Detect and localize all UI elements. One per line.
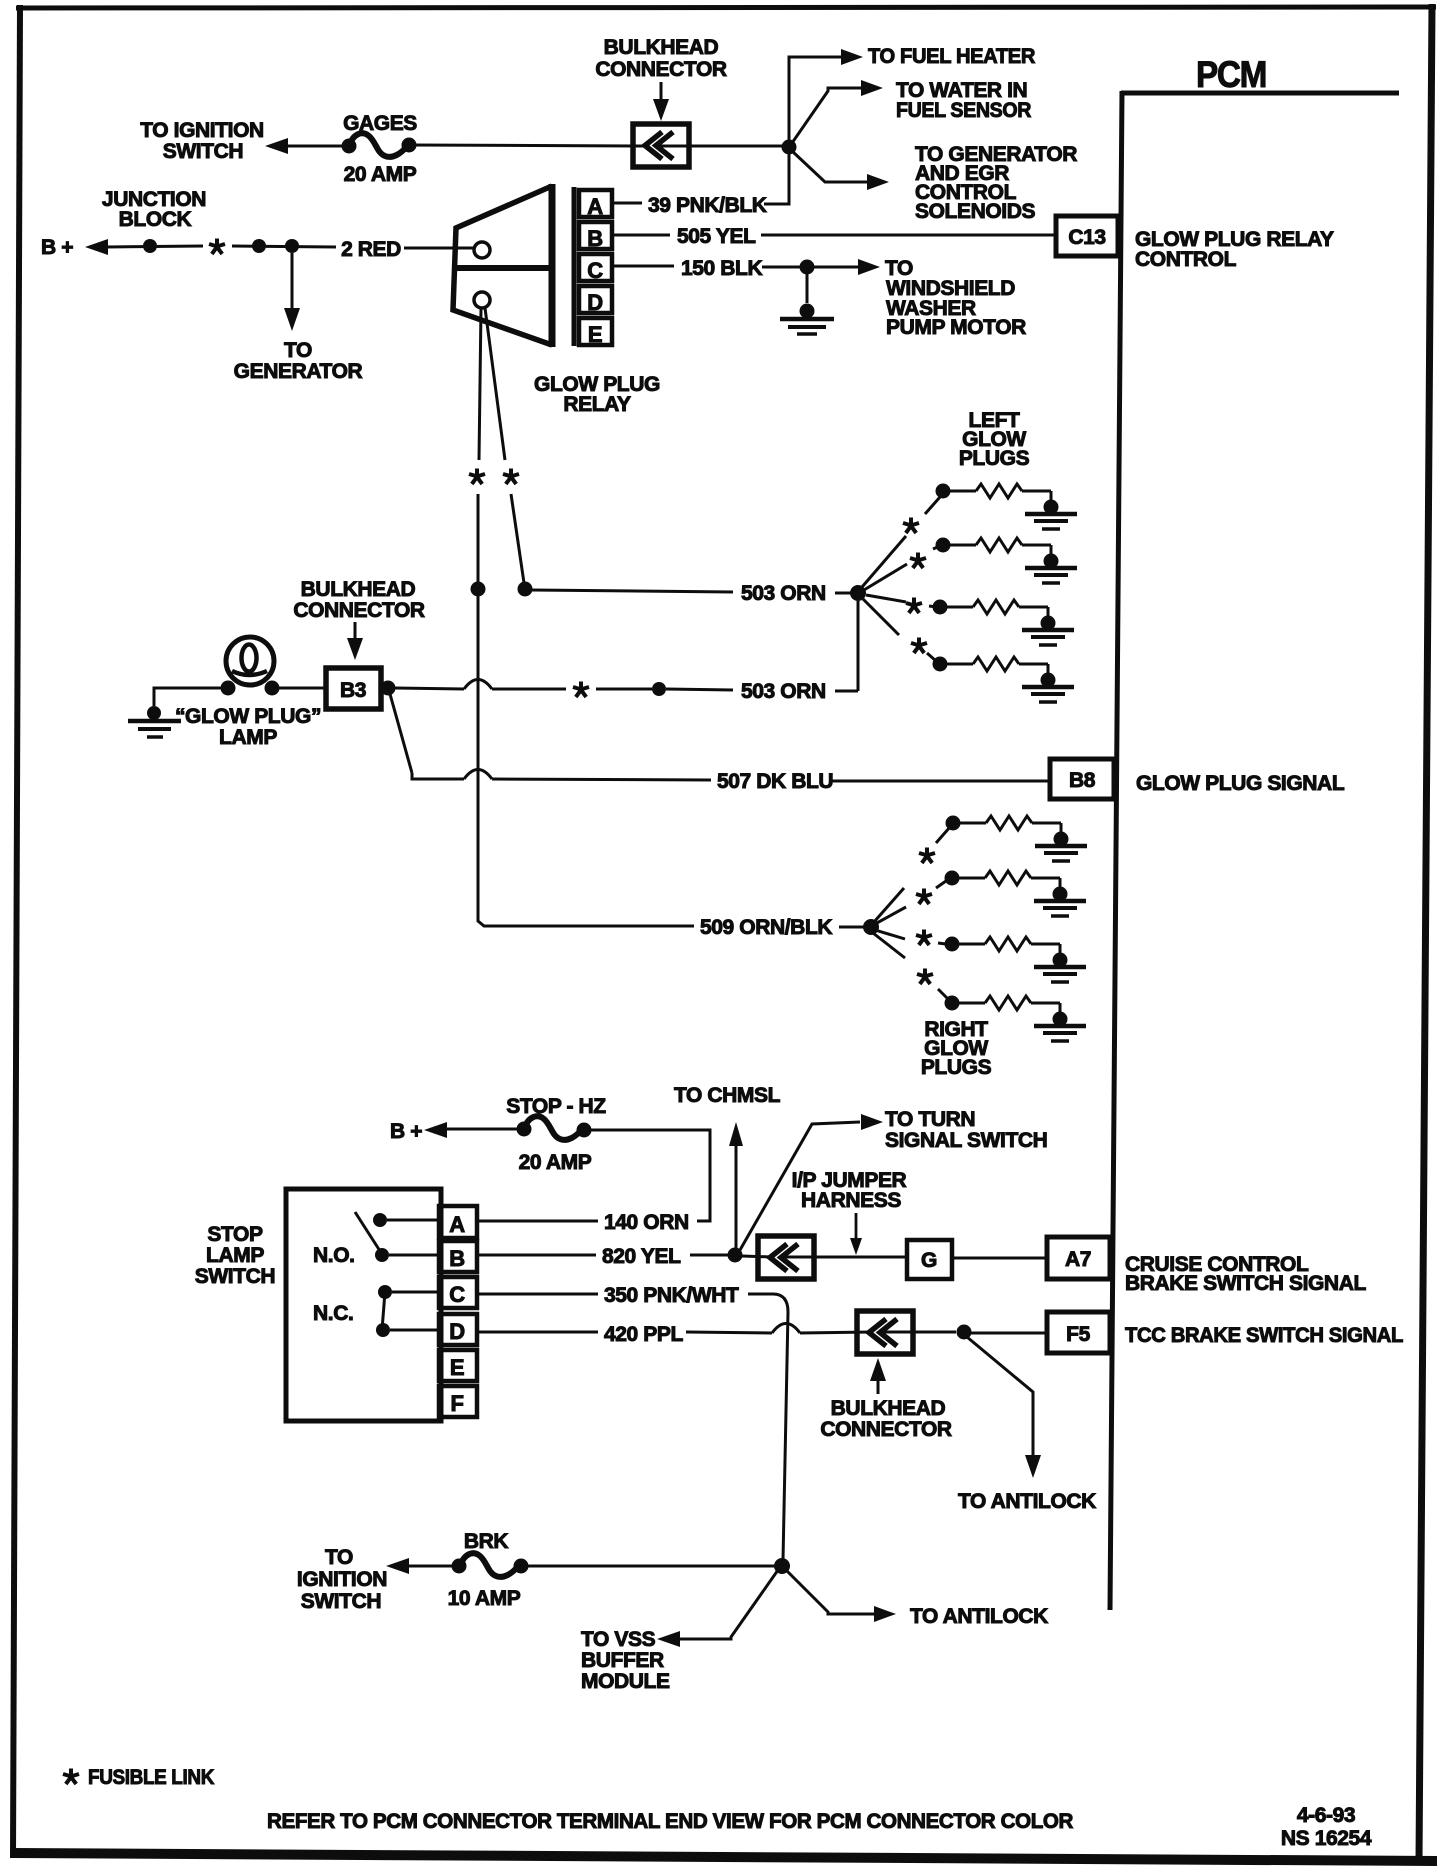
svg-text:C13: C13 bbox=[1068, 226, 1105, 249]
wire 39 PNK/BLK bbox=[613, 194, 767, 217]
svg-text:PLUGS: PLUGS bbox=[921, 1056, 992, 1079]
wire to windshield washer pump motor bbox=[814, 257, 1026, 339]
wire to BRK fuse bbox=[407, 1565, 459, 1568]
wire fan to plug R4 bbox=[873, 933, 905, 958]
wire 507 DK BLU bbox=[390, 694, 1050, 793]
lamp: glow plug lamp bbox=[221, 637, 280, 696]
wire to water in fuel sensor bbox=[792, 79, 1031, 143]
svg-text:A: A bbox=[587, 194, 603, 219]
svg-text:CONNECTOR: CONNECTOR bbox=[595, 58, 727, 81]
bulkhead connector (top) bbox=[633, 124, 689, 167]
node: brake feed junction bbox=[774, 1558, 790, 1574]
wire fan to plug L3 bbox=[866, 595, 906, 602]
svg-text:507 DK BLU: 507 DK BLU bbox=[717, 770, 833, 793]
switch: stop lamp switch box bbox=[286, 1189, 441, 1421]
relay terminal B bbox=[579, 222, 612, 251]
wire to F5 bbox=[971, 1332, 1047, 1335]
svg-text:LAMP: LAMP bbox=[219, 726, 277, 749]
svg-text:A: A bbox=[449, 1212, 465, 1237]
glow plug L3 with ground bbox=[933, 600, 1075, 646]
svg-text:TO: TO bbox=[284, 339, 312, 362]
svg-text:20 AMP: 20 AMP bbox=[344, 163, 417, 186]
wire to generator and EGR control solenoids bbox=[792, 143, 1077, 223]
svg-text:TO CHMSL: TO CHMSL bbox=[674, 1084, 781, 1107]
wire 820 YEL bbox=[477, 1245, 728, 1268]
switch terminal F bbox=[439, 1386, 477, 1417]
wire to bulkhead bbox=[742, 1256, 772, 1257]
label: CRUISE CONTROL BRAKE SWITCH SIGNAL bbox=[1125, 1253, 1366, 1295]
label: TO IGNITION SWITCH (bottom) bbox=[297, 1546, 387, 1613]
svg-text:TO VSS: TO VSS bbox=[581, 1628, 656, 1651]
relay: glow plug relay body bbox=[453, 184, 574, 347]
switch terminal A bbox=[439, 1206, 477, 1238]
switch terminal B bbox=[439, 1241, 477, 1272]
svg-text:REFER TO PCM CONNECTOR TERMINA: REFER TO PCM CONNECTOR TERMINAL END VIEW… bbox=[267, 1810, 1073, 1833]
label: RIGHT GLOW PLUGS bbox=[921, 1018, 992, 1079]
switch terminal D bbox=[439, 1314, 477, 1345]
note: fusible link legend bbox=[63, 1766, 214, 1789]
wire bulkhead to G bbox=[784, 1256, 907, 1259]
node: 150 BLK tap bbox=[800, 260, 815, 275]
svg-text:39 PNK/BLK: 39 PNK/BLK bbox=[648, 194, 767, 217]
node: generator tap bbox=[285, 239, 299, 253]
label: LEFT GLOW PLUGS bbox=[959, 409, 1030, 470]
switch terminal C bbox=[439, 1277, 477, 1308]
svg-text:FUSIBLE LINK: FUSIBLE LINK bbox=[88, 1766, 214, 1789]
wire ignition feed bbox=[286, 145, 348, 148]
svg-text:STOP - HZ: STOP - HZ bbox=[506, 1095, 606, 1118]
connector B3 bbox=[326, 668, 381, 709]
pin F5 bbox=[1047, 1312, 1110, 1353]
svg-text:150 BLK: 150 BLK bbox=[681, 257, 762, 280]
fuse GAGES 20 AMP bbox=[342, 112, 418, 186]
svg-text:GENERATOR: GENERATOR bbox=[234, 360, 363, 383]
svg-text:503 ORN: 503 ORN bbox=[741, 680, 826, 703]
relay terminal D bbox=[579, 286, 612, 315]
arrow to ignition switch (bottom) bbox=[386, 1558, 409, 1574]
svg-text:BULKHEAD: BULKHEAD bbox=[301, 578, 416, 601]
relay terminal E bbox=[579, 318, 612, 347]
node: junction block bbox=[143, 239, 157, 253]
node: 503 ORN source left bbox=[471, 582, 486, 597]
svg-text:B8: B8 bbox=[1069, 769, 1096, 792]
wire to VSS buffer module bbox=[581, 1570, 778, 1693]
wire fuse to 140 ORN bbox=[584, 1130, 710, 1221]
label: GLOW PLUG RELAY bbox=[534, 373, 660, 416]
node: TCC antilock tap bbox=[957, 1325, 972, 1340]
label: TO IGNITION SWITCH bbox=[140, 119, 264, 163]
wire fan to plug R1 bbox=[874, 888, 904, 922]
arrow B+ stop feed bbox=[424, 1122, 447, 1138]
wire to antilock (from TCC tap) bbox=[958, 1337, 1096, 1513]
wire 509 ORN/BLK bbox=[478, 596, 864, 939]
wire to fuse bbox=[445, 1128, 524, 1131]
wire 350 PNK/WHT bbox=[477, 1284, 788, 1560]
svg-text:20 AMP: 20 AMP bbox=[519, 1151, 592, 1174]
svg-text:B3: B3 bbox=[340, 679, 366, 702]
label: BULKHEAD CONNECTOR (top) bbox=[595, 36, 727, 121]
pin A7 bbox=[1047, 1237, 1110, 1279]
glow plug L4 with ground bbox=[933, 657, 1075, 703]
node: right glow plug fan bbox=[863, 919, 879, 935]
node: ignition feed junction bbox=[782, 140, 797, 155]
svg-text:CONNECTOR: CONNECTOR bbox=[820, 1418, 952, 1441]
wire 420 PPL bbox=[477, 1323, 872, 1346]
label: "GLOW PLUG" LAMP bbox=[175, 705, 321, 749]
svg-text:140 ORN: 140 ORN bbox=[604, 1211, 689, 1234]
svg-text:SWITCH: SWITCH bbox=[301, 1590, 381, 1613]
wire fuse to bulkhead connector bbox=[410, 145, 648, 146]
svg-text:SWITCH: SWITCH bbox=[195, 1265, 275, 1288]
bulkhead connector (820 YEL) bbox=[758, 1236, 814, 1279]
svg-text:“GLOW PLUG”: “GLOW PLUG” bbox=[175, 705, 321, 728]
svg-text:CONTROL: CONTROL bbox=[1135, 248, 1237, 271]
wire fan to plug L4 bbox=[863, 599, 899, 635]
wire to fuel heater bbox=[789, 45, 1035, 141]
note: date code bbox=[1281, 1804, 1372, 1850]
relay terminal A bbox=[579, 190, 612, 219]
svg-text:A7: A7 bbox=[1065, 1248, 1091, 1271]
svg-text:SOLENOIDS: SOLENOIDS bbox=[915, 200, 1035, 223]
svg-text:BRAKE SWITCH SIGNAL: BRAKE SWITCH SIGNAL bbox=[1125, 1272, 1366, 1295]
wire B+ feed bbox=[106, 246, 203, 247]
svg-text:BLOCK: BLOCK bbox=[119, 208, 192, 231]
pin B8 bbox=[1050, 759, 1114, 799]
svg-text:LAMP: LAMP bbox=[206, 1244, 264, 1267]
svg-text:E: E bbox=[450, 1355, 464, 1380]
relay terminal C bbox=[579, 254, 612, 283]
svg-text:CONNECTOR: CONNECTOR bbox=[293, 599, 425, 622]
connector G bbox=[907, 1240, 952, 1279]
bulkhead connector (420 PPL) bbox=[857, 1311, 913, 1354]
svg-text:STOP: STOP bbox=[207, 1223, 263, 1246]
glow plug R2 with ground bbox=[945, 871, 1087, 917]
svg-text:IGNITION: IGNITION bbox=[297, 1568, 387, 1591]
pin C13 bbox=[1056, 216, 1118, 256]
glow plug R4 with ground bbox=[945, 996, 1087, 1042]
arrow B+ bbox=[85, 239, 108, 255]
switch N.C. contact bbox=[313, 1285, 439, 1337]
label: BULKHEAD CONNECTOR (bottom) bbox=[820, 1358, 952, 1441]
svg-text:TO: TO bbox=[325, 1546, 353, 1569]
wire fuse to brake junction bbox=[521, 1565, 776, 1568]
glow plug L2 with ground bbox=[936, 538, 1078, 584]
label: STOP LAMP SWITCH bbox=[195, 1223, 275, 1288]
svg-text:10 AMP: 10 AMP bbox=[448, 1587, 521, 1610]
wire 503 ORN (upper) bbox=[532, 582, 852, 605]
svg-text:TO FUEL HEATER: TO FUEL HEATER bbox=[868, 45, 1035, 68]
svg-text:2 RED: 2 RED bbox=[341, 238, 401, 261]
svg-text:F: F bbox=[450, 1391, 463, 1416]
svg-text:BUFFER: BUFFER bbox=[581, 1649, 664, 1672]
ground (150 BLK) bbox=[780, 274, 834, 334]
wire to CHMSL bbox=[729, 1122, 743, 1250]
svg-text:503 ORN: 503 ORN bbox=[741, 582, 826, 605]
fuse STOP-HZ 20 AMP bbox=[506, 1095, 606, 1174]
fusible link asterisks bbox=[469, 469, 485, 485]
node: B3 output bbox=[381, 681, 396, 696]
svg-text:PLUGS: PLUGS bbox=[959, 447, 1030, 470]
svg-text:RELAY: RELAY bbox=[563, 393, 631, 416]
svg-text:BRK: BRK bbox=[464, 1530, 509, 1553]
svg-text:505 YEL: 505 YEL bbox=[677, 225, 756, 248]
wire to turn signal switch bbox=[740, 1108, 1047, 1250]
svg-text:TO IGNITION: TO IGNITION bbox=[140, 119, 264, 142]
node: left glow plug fan bbox=[850, 585, 866, 601]
label: I/P JUMPER HARNESS bbox=[792, 1169, 907, 1255]
fusible link asterisk (503 ORN) bbox=[573, 682, 589, 698]
svg-text:BULKHEAD: BULKHEAD bbox=[604, 36, 719, 59]
svg-text:HARNESS: HARNESS bbox=[801, 1189, 901, 1212]
PCM module boundary bbox=[1110, 54, 1399, 1610]
fusible link asterisk bbox=[209, 239, 225, 255]
wire 503 ORN (lower) bbox=[395, 680, 858, 704]
label: JUNCTION BLOCK bbox=[102, 188, 206, 231]
svg-text:MODULE: MODULE bbox=[581, 1670, 670, 1693]
wire fan to plug R2 bbox=[875, 907, 906, 924]
svg-text:B +: B + bbox=[390, 1120, 422, 1143]
wire 140 ORN bbox=[477, 1211, 689, 1234]
wire 505 YEL bbox=[613, 225, 1056, 248]
wire G to A7 bbox=[952, 1257, 1047, 1260]
svg-text:FUEL SENSOR: FUEL SENSOR bbox=[896, 99, 1031, 122]
ground (lamp) bbox=[128, 706, 181, 737]
svg-text:C: C bbox=[587, 258, 603, 283]
wire to generator bbox=[234, 253, 363, 383]
wire fan to plug R3 bbox=[875, 930, 905, 939]
svg-text:4-6-93: 4-6-93 bbox=[1297, 1804, 1355, 1827]
wire fan to plug L1 bbox=[862, 536, 906, 587]
svg-text:N.O.: N.O. bbox=[313, 1244, 355, 1267]
svg-text:B: B bbox=[587, 226, 603, 251]
svg-text:D: D bbox=[587, 290, 603, 315]
wire to 2 RED bbox=[232, 246, 336, 247]
svg-text:TO ANTILOCK: TO ANTILOCK bbox=[958, 1490, 1096, 1513]
wire bulkhead to F5 bbox=[884, 1331, 956, 1334]
svg-text:N.C.: N.C. bbox=[313, 1302, 353, 1325]
glow plug R3 with ground bbox=[945, 937, 1087, 983]
svg-text:PCM: PCM bbox=[1196, 54, 1266, 95]
svg-text:SIGNAL SWITCH: SIGNAL SWITCH bbox=[885, 1129, 1047, 1152]
svg-text:420 PPL: 420 PPL bbox=[604, 1323, 683, 1346]
wire fan to plug L2 bbox=[864, 564, 907, 590]
svg-text:SWITCH: SWITCH bbox=[163, 140, 243, 163]
glow plug R1 with ground bbox=[946, 816, 1088, 862]
svg-text:F5: F5 bbox=[1066, 1323, 1090, 1346]
svg-text:820 YEL: 820 YEL bbox=[602, 1245, 681, 1268]
fuse BRK 10 AMP bbox=[448, 1530, 529, 1610]
svg-text:BULKHEAD: BULKHEAD bbox=[831, 1397, 946, 1420]
switch terminal E bbox=[439, 1350, 477, 1381]
wire to antilock (bottom) bbox=[786, 1570, 1048, 1628]
svg-text:TCC BRAKE SWITCH SIGNAL: TCC BRAKE SWITCH SIGNAL bbox=[1125, 1324, 1404, 1347]
svg-text:GAGES: GAGES bbox=[343, 112, 417, 135]
svg-text:GLOW PLUG SIGNAL: GLOW PLUG SIGNAL bbox=[1136, 772, 1345, 795]
wire 2 RED to relay bbox=[404, 247, 474, 250]
label: BULKHEAD CONNECTOR (B3) bbox=[293, 578, 425, 660]
wire node down to 39 PNK/BLK bbox=[764, 153, 789, 204]
svg-text:C: C bbox=[449, 1282, 465, 1307]
svg-text:G: G bbox=[921, 1249, 937, 1272]
svg-text:B +: B + bbox=[41, 236, 73, 259]
svg-text:B: B bbox=[449, 1246, 465, 1271]
svg-text:TO ANTILOCK: TO ANTILOCK bbox=[910, 1605, 1048, 1628]
svg-text:E: E bbox=[588, 322, 602, 347]
label: GLOW PLUG RELAY CONTROL bbox=[1135, 228, 1334, 271]
wire bulkhead to node bbox=[659, 145, 789, 148]
wires from relay lower contact (fusible links) bbox=[478, 308, 524, 583]
wire 150 BLK bbox=[613, 257, 800, 280]
svg-text:509 ORN/BLK: 509 ORN/BLK bbox=[700, 916, 832, 939]
svg-text:D: D bbox=[449, 1319, 465, 1344]
node bbox=[252, 239, 266, 253]
glow plug L1 with ground bbox=[936, 484, 1078, 530]
wire lamp to ground bbox=[154, 688, 221, 706]
arrow to ignition switch bbox=[265, 138, 288, 154]
wire fan down to 503 ORN (lower) bbox=[857, 601, 860, 691]
svg-text:PUMP MOTOR: PUMP MOTOR bbox=[886, 316, 1026, 339]
svg-text:350 PNK/WHT: 350 PNK/WHT bbox=[604, 1284, 739, 1307]
svg-text:NS 16254: NS 16254 bbox=[1281, 1827, 1372, 1850]
switch N.O. contact bbox=[313, 1212, 439, 1267]
node: 820 YEL tap bbox=[728, 1248, 743, 1263]
wire lamp to B3 bbox=[279, 687, 326, 690]
svg-text:TO TURN: TO TURN bbox=[885, 1108, 975, 1131]
node: 503 ORN source right bbox=[518, 582, 533, 597]
